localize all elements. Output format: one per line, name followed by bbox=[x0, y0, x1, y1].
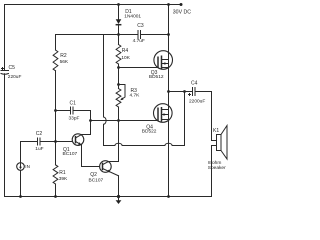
transistor Q1 bbox=[72, 134, 84, 146]
node output tap on FET rail bbox=[167, 90, 170, 93]
wire bias top net y=34.4 bbox=[56, 34, 169, 36]
wire Q4 gate row y=120.7 bbox=[91, 120, 159, 122]
resistor R2 bbox=[53, 50, 58, 71]
svg-text:1N4001: 1N4001 bbox=[124, 14, 141, 20]
svg-text:4.7uF: 4.7uF bbox=[133, 38, 145, 44]
svg-text:56K: 56K bbox=[60, 59, 69, 65]
wire speaker return down bbox=[211, 146, 213, 197]
node R3 wiper tap bbox=[117, 83, 120, 86]
resistor R1 bbox=[53, 165, 58, 184]
wire C1 row y=110.3 bbox=[56, 110, 91, 112]
wire R3 wiper arm bbox=[119, 85, 126, 100]
wire input row y=141.7 bbox=[21, 141, 73, 143]
svg-text:C2: C2 bbox=[36, 131, 43, 137]
svg-text:39K: 39K bbox=[59, 176, 68, 182]
svg-text:C1: C1 bbox=[70, 101, 77, 107]
wire D1 anode lead bbox=[118, 5, 120, 20]
node gate bias / Q4 gate junction bbox=[117, 119, 120, 122]
svg-text:220uF: 220uF bbox=[8, 74, 22, 80]
node IN at ground rail bbox=[19, 195, 22, 198]
arrow R3 wiper bbox=[120, 97, 123, 100]
svg-text:R4: R4 bbox=[122, 48, 129, 54]
node C1 tap on base column bbox=[54, 109, 57, 112]
svg-text:10K: 10K bbox=[121, 55, 130, 61]
wire Q1 emitter to Q2 base bbox=[82, 145, 100, 167]
node R1/base junction bbox=[54, 140, 57, 143]
node D1 cathode junction bbox=[117, 33, 120, 36]
wire speaker feed down bbox=[211, 92, 213, 141]
transistor Q2 bbox=[100, 161, 119, 176]
ground bbox=[116, 197, 122, 205]
svg-text:C3: C3 bbox=[137, 23, 144, 29]
node feedback join bbox=[89, 119, 92, 122]
svg-text:C5: C5 bbox=[9, 65, 16, 71]
svg-text:30V DC: 30V DC bbox=[173, 9, 191, 15]
transistor Q4 bbox=[154, 104, 173, 123]
node at top rail and D1 anode bbox=[117, 3, 120, 6]
svg-text:Speaker: Speaker bbox=[208, 165, 226, 171]
wire C1 to collector column bbox=[90, 111, 92, 135]
wire IN source bottom lead bbox=[20, 170, 22, 196]
capacitor C4 bbox=[189, 88, 196, 96]
svg-text:K1: K1 bbox=[213, 128, 219, 134]
resistor R3 preset bbox=[116, 89, 121, 108]
speaker K1 bbox=[212, 126, 228, 160]
svg-text:IN: IN bbox=[25, 164, 30, 169]
wire bottom ground rail bbox=[5, 196, 212, 198]
capacitor C1 bbox=[71, 107, 74, 114]
svg-text:Q2: Q2 bbox=[90, 172, 97, 178]
svg-text:R1: R1 bbox=[59, 170, 66, 176]
node R4 bottom / Q3 gate bbox=[117, 66, 120, 69]
node FET rail at ground rail bbox=[167, 195, 170, 198]
node R1 at ground rail bbox=[54, 195, 57, 198]
node emitter at ground rail bbox=[117, 195, 120, 198]
wire base column mid bbox=[55, 71, 57, 165]
svg-text:BC107: BC107 bbox=[63, 151, 78, 157]
svg-text:BC107: BC107 bbox=[89, 177, 104, 183]
node C3 right at FET rail bbox=[167, 33, 170, 36]
wire bootstrap column x=103 with hop bbox=[104, 35, 107, 146]
wire feedback riser to output bbox=[184, 92, 186, 146]
wire IN source top lead bbox=[20, 142, 22, 163]
node 30V DC terminal bbox=[180, 3, 183, 6]
svg-text:1uF: 1uF bbox=[35, 146, 43, 152]
wire output row y=91 bbox=[169, 91, 212, 93]
diode D1 bbox=[116, 19, 122, 34]
svg-text:BD512: BD512 bbox=[149, 74, 164, 80]
wire left supply rail bbox=[4, 5, 6, 197]
wire top 30V rail bbox=[5, 4, 182, 6]
wire Q1 collector row bbox=[82, 134, 91, 136]
capacitor C5 bbox=[1, 68, 9, 75]
svg-text:33pF: 33pF bbox=[69, 115, 80, 121]
wire FET drain-source rail bbox=[168, 5, 170, 197]
capacitor C3 bbox=[138, 31, 141, 39]
wire Q3 gate bbox=[119, 67, 159, 69]
svg-text:4.7K: 4.7K bbox=[130, 92, 141, 98]
wire R2 top corner from bias net bbox=[55, 35, 57, 51]
svg-text:C4: C4 bbox=[191, 80, 198, 86]
wire feedback row y=145.2 with hops bbox=[104, 143, 185, 145]
wire Q2 collector vertical bbox=[118, 121, 120, 162]
node at top rail and FET rail bbox=[167, 3, 170, 6]
svg-text:BD522: BD522 bbox=[142, 129, 157, 135]
transistor Q3 bbox=[154, 51, 173, 70]
capacitor C2 bbox=[38, 138, 41, 145]
resistor R4 bbox=[116, 45, 121, 65]
node feedback tap on output bbox=[183, 90, 186, 93]
svg-text:2200uF: 2200uF bbox=[189, 98, 205, 104]
wire Q2 emitter to ground rail bbox=[118, 176, 120, 197]
source IN bbox=[17, 163, 25, 171]
svg-text:R2: R2 bbox=[60, 53, 67, 59]
